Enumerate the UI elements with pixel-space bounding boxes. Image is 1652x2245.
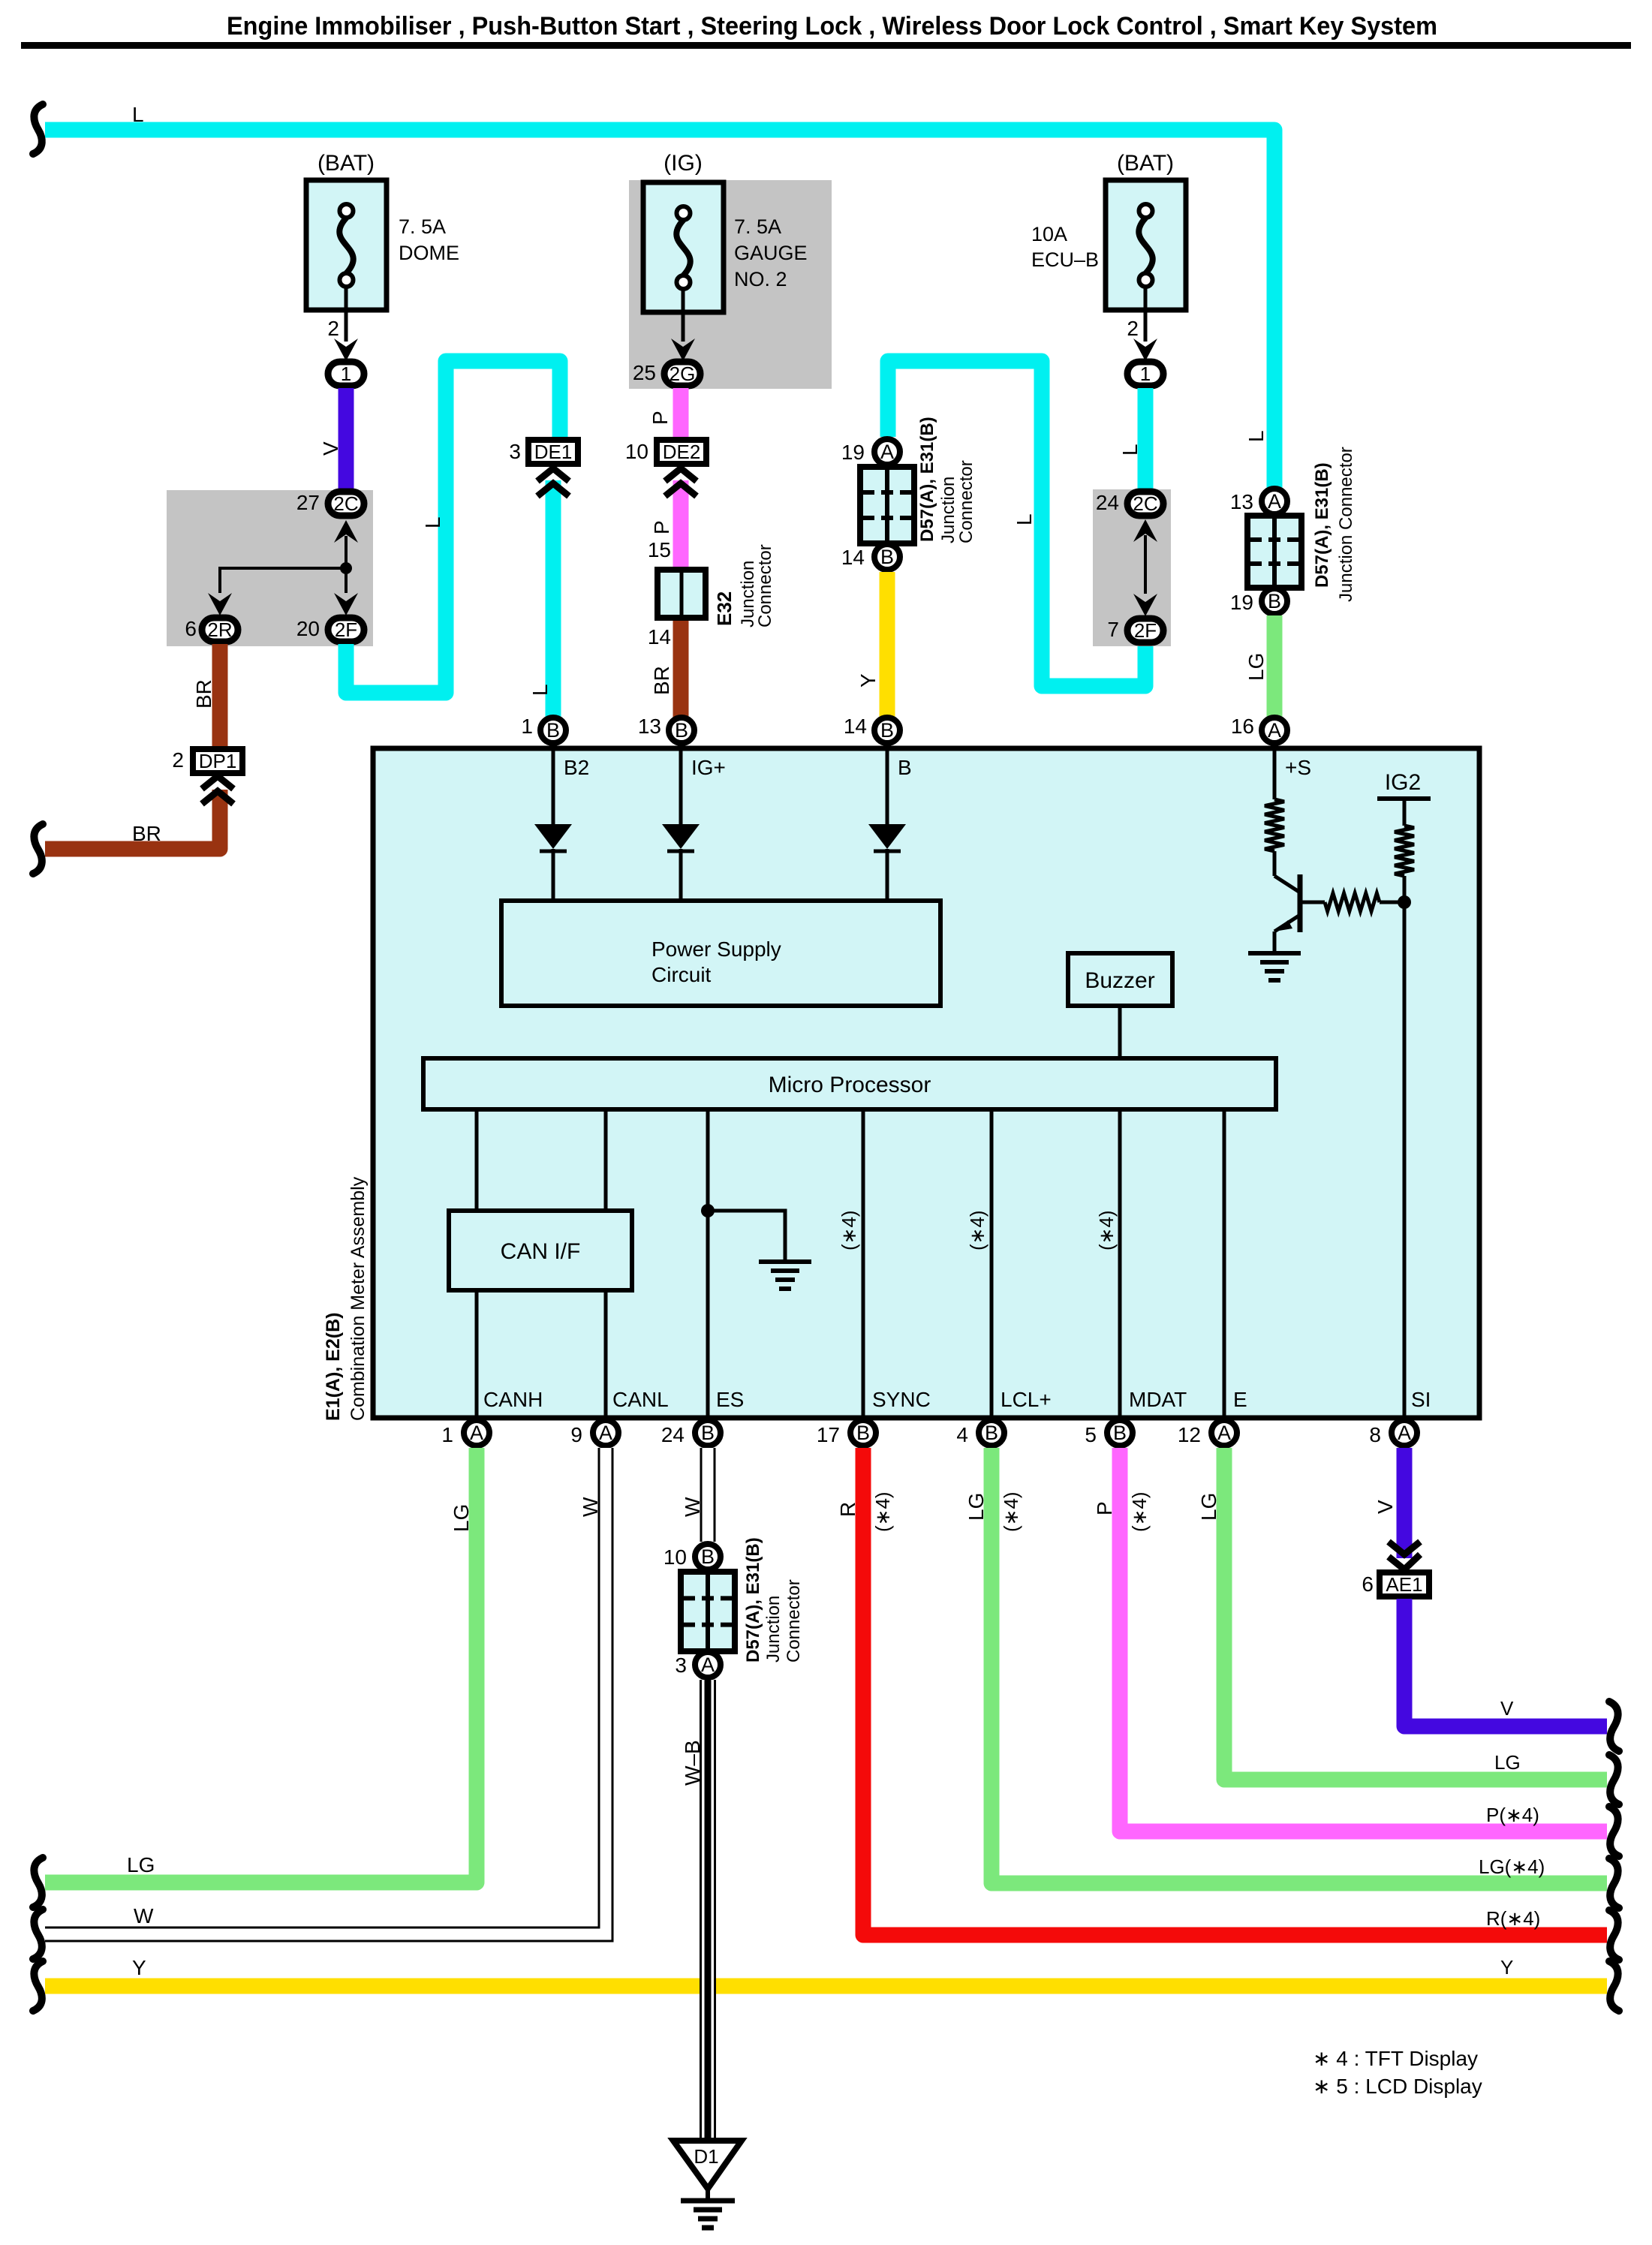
svg-text:LG(∗4): LG(∗4) — [1479, 1855, 1545, 1878]
label W upper of W-B — [681, 1497, 704, 1517]
wire CANH upper — [475, 1109, 479, 1211]
svg-text:12: 12 — [1178, 1423, 1201, 1446]
label R(*4) right — [1486, 1907, 1540, 1930]
svg-text:B: B — [880, 546, 894, 568]
wire P pin5B to right edge — [1120, 1448, 1607, 1831]
wire LCL+ — [990, 1109, 994, 1418]
svg-text:2C: 2C — [333, 492, 358, 515]
label LG below pin 1A — [450, 1504, 473, 1532]
svg-text:2: 2 — [327, 317, 339, 340]
pin 17 B bottom — [817, 1420, 876, 1446]
svg-text:2F: 2F — [335, 618, 357, 641]
node 6 2R — [185, 617, 238, 642]
svg-text:Junction: Junction — [763, 1596, 784, 1663]
resistor IG2 — [1395, 826, 1414, 876]
label D57(A) E31(B) second — [1312, 447, 1356, 602]
harness block GAUGE (gray) — [629, 180, 832, 389]
connector DP1 — [172, 748, 242, 773]
svg-text:1: 1 — [441, 1423, 453, 1446]
wire P upper — [673, 388, 689, 438]
connector oval 1 (ECU-B) — [1127, 362, 1163, 386]
svg-text:IG+: IG+ — [691, 756, 726, 779]
svg-text:B: B — [1113, 1422, 1127, 1444]
connector DE1 — [509, 440, 578, 464]
svg-text:14: 14 — [648, 625, 671, 649]
svg-text:A: A — [599, 1422, 612, 1444]
svg-text:IG2: IG2 — [1385, 770, 1421, 795]
label BR horizontal — [132, 822, 161, 845]
wire W-B pin24B upper — [700, 1448, 716, 1542]
wire V AE1 to right edge — [1404, 1599, 1607, 1726]
svg-text:(∗4): (∗4) — [966, 1210, 988, 1250]
svg-text:AE1: AE1 — [1386, 1573, 1422, 1596]
svg-text:1: 1 — [341, 363, 351, 385]
label (BAT) ECU-B — [1117, 151, 1174, 176]
junction connector D57(A) E31(B) third — [664, 1544, 721, 1569]
fuse 7.5A DOME — [306, 180, 387, 310]
wire BR to left edge — [45, 790, 220, 849]
wire continuation curl LG4 right — [1609, 1858, 1619, 1908]
svg-text:B: B — [1268, 590, 1281, 612]
svg-text:R(∗4): R(∗4) — [1486, 1907, 1540, 1930]
pin 13 B top — [638, 715, 694, 743]
svg-text:BR: BR — [650, 666, 673, 695]
svg-text:+S: +S — [1285, 756, 1311, 779]
label SYNC — [872, 1388, 931, 1411]
label D57(A) E31(B) first — [917, 417, 976, 543]
label LG below pin 12A — [1197, 1493, 1220, 1521]
wire LG 19B to pin 16A — [1267, 615, 1283, 719]
svg-text:D57(A), E31(B): D57(A), E31(B) — [1312, 462, 1332, 588]
pin 1 A bottom — [441, 1420, 489, 1446]
label LG below pin 4B — [964, 1493, 988, 1521]
wire LG pin12A to right edge — [1224, 1448, 1607, 1780]
block CAN I/F — [449, 1211, 632, 1290]
svg-text:7. 5A: 7. 5A — [734, 215, 781, 238]
svg-text:20: 20 — [296, 617, 320, 640]
svg-text:24: 24 — [661, 1423, 685, 1446]
svg-text:B: B — [546, 719, 560, 742]
label LG left — [127, 1853, 155, 1876]
label W below pin 9A — [579, 1497, 602, 1517]
svg-text:B: B — [856, 1422, 870, 1444]
label 15 E32 pin — [648, 538, 671, 561]
svg-text:ES: ES — [716, 1388, 744, 1411]
svg-text:L: L — [1118, 444, 1142, 456]
svg-text:DP1: DP1 — [199, 750, 237, 772]
label V below pin 8A — [1374, 1500, 1397, 1514]
pin 14 B top — [844, 715, 900, 743]
label 2 DOME pin — [327, 317, 339, 340]
chevron DE2 — [665, 468, 697, 496]
label Y right — [1500, 1956, 1513, 1979]
node 7 2F — [1107, 618, 1163, 643]
svg-text:A: A — [880, 441, 894, 463]
svg-text:DE1: DE1 — [534, 441, 573, 463]
wire BR 2R to DP1 — [212, 644, 228, 750]
wire continuation curl Y right — [1609, 1961, 1619, 2011]
label SI — [1411, 1388, 1431, 1411]
svg-text:Junction: Junction — [938, 477, 958, 543]
label W left — [134, 1904, 154, 1928]
wire Y full width — [45, 1979, 1607, 1994]
wire IG2 to SI pin — [1403, 876, 1407, 1418]
svg-text:27: 27 — [296, 491, 320, 514]
wire fuse ECU-B pin 2 — [1133, 287, 1157, 361]
svg-text:V: V — [1500, 1697, 1514, 1720]
wire MDAT — [1118, 1109, 1122, 1418]
pin 4 B bottom — [956, 1420, 1004, 1446]
svg-text:15: 15 — [648, 538, 671, 561]
svg-text:D57(A), E31(B): D57(A), E31(B) — [743, 1537, 763, 1663]
svg-text:W: W — [681, 1497, 704, 1517]
svg-text:3: 3 — [509, 440, 521, 463]
wire V pin8A upper — [1397, 1448, 1413, 1558]
node 27 2C — [296, 491, 364, 516]
svg-text:A: A — [1268, 719, 1281, 742]
svg-text:DOME: DOME — [399, 242, 459, 264]
wire L 2F to DE1 — [346, 361, 560, 693]
wire CANL lower — [604, 1290, 608, 1418]
fuse 10A ECU-B — [1106, 180, 1186, 310]
ECU Combination Meter Assembly — [373, 748, 1479, 1418]
svg-text:9: 9 — [570, 1423, 582, 1446]
wire continuation curl W left — [33, 1909, 43, 1959]
svg-text:10: 10 — [625, 440, 648, 463]
svg-text:8: 8 — [1369, 1423, 1381, 1446]
svg-text:Combination Meter Assembly: Combination Meter Assembly — [348, 1176, 369, 1421]
label E32 Junction Connector — [713, 544, 775, 627]
junction connector D57(A) E31(B) second — [1230, 489, 1287, 514]
svg-text:LG: LG — [127, 1853, 155, 1876]
connector DE2 — [625, 440, 706, 464]
junction dot — [340, 562, 352, 574]
svg-text:(∗4): (∗4) — [1000, 1491, 1022, 1532]
svg-text:10: 10 — [664, 1545, 687, 1569]
pin 8 A bottom — [1369, 1420, 1417, 1446]
svg-text:SYNC: SYNC — [872, 1388, 931, 1411]
svg-text:24: 24 — [1096, 491, 1119, 514]
resistor base — [1300, 893, 1404, 911]
diode B2 — [534, 748, 572, 901]
svg-text:LG: LG — [1244, 653, 1268, 681]
label ES — [716, 1388, 744, 1411]
svg-text:Micro Processor: Micro Processor — [769, 1073, 931, 1097]
svg-text:6: 6 — [185, 617, 197, 640]
svg-text:E1(A), E2(B): E1(A), E2(B) — [323, 1313, 344, 1421]
block Micro Processor — [423, 1058, 1276, 1109]
svg-text:2G: 2G — [670, 363, 696, 385]
svg-text:CAN I/F: CAN I/F — [501, 1239, 581, 1264]
connector oval 25 2G — [633, 361, 700, 386]
wire LG pin4B to right edge — [992, 1448, 1607, 1883]
svg-text:19: 19 — [1230, 591, 1253, 614]
wire R pin17B to right edge — [863, 1448, 1607, 1935]
transistor Q1 — [1274, 851, 1300, 953]
svg-text:Junction Connector: Junction Connector — [1336, 447, 1356, 602]
svg-text:7. 5A: 7. 5A — [399, 215, 446, 238]
svg-text:2: 2 — [1127, 317, 1139, 340]
wire junction to 2R — [208, 568, 346, 615]
svg-text:(IG): (IG) — [664, 151, 703, 176]
label E1(A) E2(B) Combination Meter Assembly — [323, 1176, 369, 1421]
wire continuation curl P right — [1609, 1807, 1619, 1856]
label CANH — [483, 1388, 543, 1411]
pin 12 A bottom — [1178, 1420, 1237, 1446]
wire continuation curl Y left — [33, 1961, 43, 2011]
label W-B — [681, 1740, 704, 1786]
label LG right — [1494, 1751, 1521, 1774]
wire E — [1223, 1109, 1226, 1418]
wire fuse GAUGE pin 25 — [671, 290, 695, 361]
wire L (cyan) battery feed — [45, 130, 1274, 488]
block Power Supply Circuit — [501, 901, 940, 1006]
pin 19 B of D57 second — [1230, 588, 1287, 614]
label 7.5A DOME — [399, 215, 459, 264]
connector AE1 — [1362, 1572, 1429, 1596]
wire CANL upper — [604, 1109, 608, 1211]
label LCL+ — [1001, 1388, 1052, 1411]
svg-text:LG: LG — [1494, 1751, 1521, 1774]
svg-text:7: 7 — [1107, 618, 1119, 641]
label MDAT — [1129, 1388, 1187, 1411]
pin 14 B of D57 — [841, 544, 900, 570]
label CANL — [612, 1388, 669, 1411]
label BR vertical — [192, 679, 215, 709]
wire L DE1 to pin 1B — [546, 480, 561, 719]
svg-text:Buzzer: Buzzer — [1085, 968, 1154, 993]
pin 3 A of D57 third — [675, 1652, 721, 1678]
diode B — [868, 748, 906, 901]
node 20 2F — [296, 617, 364, 642]
svg-text:Connector: Connector — [784, 1579, 804, 1663]
wire 2C to 2F right — [1133, 519, 1157, 616]
svg-text:6: 6 — [1362, 1572, 1374, 1596]
svg-text:B: B — [701, 1422, 715, 1444]
svg-text:(BAT): (BAT) — [317, 151, 375, 176]
svg-text:Power Supply: Power Supply — [651, 937, 781, 961]
wire continuation curl BR — [33, 824, 43, 874]
label E — [1233, 1388, 1247, 1411]
svg-text:LCL+: LCL+ — [1001, 1388, 1052, 1411]
label Y wire — [856, 673, 880, 688]
node ES junction dot — [701, 1204, 715, 1217]
svg-text:(∗4): (∗4) — [1128, 1491, 1151, 1532]
svg-text:10A: 10A — [1031, 223, 1067, 245]
pin 9 A bottom — [570, 1420, 618, 1446]
svg-text:Connector: Connector — [956, 460, 976, 543]
svg-text:(BAT): (BAT) — [1117, 151, 1174, 176]
svg-text:Y: Y — [856, 673, 880, 688]
label 2 ECU-B pin — [1127, 317, 1139, 340]
svg-text:B2: B2 — [564, 756, 589, 779]
svg-text:2F: 2F — [1134, 619, 1157, 642]
svg-text:(∗4): (∗4) — [838, 1210, 860, 1250]
label L above pin 1B — [528, 684, 552, 696]
wire W-B to D1 — [700, 1680, 716, 2138]
svg-text:14: 14 — [841, 546, 865, 569]
wire ES ground branch — [708, 1211, 785, 1262]
label (*4) SYNC — [838, 1210, 860, 1250]
svg-text:D57(A), E31(B): D57(A), E31(B) — [917, 417, 937, 542]
svg-text:∗ 4 : TFT Display: ∗ 4 : TFT Display — [1313, 2047, 1478, 2070]
wire 2C to junction — [334, 520, 358, 568]
svg-text:MDAT: MDAT — [1129, 1388, 1187, 1411]
svg-text:P: P — [650, 520, 673, 534]
svg-text:Circuit: Circuit — [651, 963, 712, 986]
svg-text:1: 1 — [521, 715, 533, 738]
svg-text:16: 16 — [1231, 715, 1254, 738]
label V right — [1500, 1697, 1514, 1720]
svg-text:ECU–B: ECU–B — [1031, 248, 1099, 271]
label R below pin 17B — [836, 1502, 859, 1517]
svg-text:P: P — [648, 411, 672, 425]
ground transistor emitter — [1248, 953, 1301, 980]
label IG+ — [691, 756, 726, 779]
svg-text:GAUGE: GAUGE — [734, 242, 808, 264]
wire W pin9A to left edge — [45, 1448, 606, 1934]
wire L 19A to 2F right — [888, 361, 1145, 686]
svg-text:Y: Y — [132, 1956, 146, 1979]
label LG wire right — [1244, 653, 1268, 681]
harness block right (gray) — [1093, 489, 1171, 646]
svg-text:2R: 2R — [207, 618, 232, 641]
svg-text:L: L — [1244, 430, 1268, 442]
svg-text:P(∗4): P(∗4) — [1486, 1804, 1539, 1826]
svg-text:(∗4): (∗4) — [1095, 1210, 1118, 1250]
svg-text:V: V — [319, 441, 342, 456]
svg-text:13: 13 — [1230, 490, 1253, 513]
label (*4) below pin 17B — [871, 1491, 894, 1532]
harness block left (gray) — [167, 490, 373, 646]
label BR E32 — [650, 666, 673, 695]
label D57(A) E31(B) third — [743, 1537, 804, 1663]
chevron DP1 — [202, 776, 233, 804]
svg-text:V: V — [1374, 1500, 1397, 1514]
svg-text:P: P — [1093, 1501, 1116, 1515]
wire ES — [706, 1109, 710, 1418]
fuse 7.5A GAUGE NO.2 — [643, 182, 724, 312]
note TFT LCD display — [1313, 2047, 1482, 2098]
wire Y 14B to pin 14B — [880, 572, 895, 719]
svg-text:5: 5 — [1085, 1423, 1097, 1446]
wire continuation curl R right — [1609, 1910, 1619, 1960]
label L mid vertical — [421, 516, 444, 528]
svg-text:BR: BR — [132, 822, 161, 845]
svg-text:E32: E32 — [713, 591, 736, 626]
svg-text:NO. 2: NO. 2 — [734, 268, 787, 290]
svg-text:(∗4): (∗4) — [871, 1491, 894, 1532]
label B pin14 — [898, 756, 912, 779]
wire continuation curl LG left — [33, 1858, 43, 1907]
node 24 2C — [1096, 491, 1163, 516]
svg-text:25: 25 — [633, 361, 656, 384]
svg-text:4: 4 — [956, 1423, 968, 1446]
svg-text:SI: SI — [1411, 1388, 1431, 1411]
label +S — [1285, 756, 1311, 779]
pin 16 A top — [1231, 715, 1287, 743]
svg-text:CANL: CANL — [612, 1388, 669, 1411]
svg-text:B: B — [701, 1545, 715, 1568]
svg-text:W–B: W–B — [681, 1740, 704, 1786]
connector oval 1 (DOME) — [328, 362, 364, 386]
label (IG) — [664, 151, 703, 176]
svg-text:W: W — [579, 1497, 602, 1517]
block Buzzer — [1068, 953, 1172, 1006]
label V — [319, 441, 342, 456]
pin 24 B bottom — [661, 1420, 721, 1446]
svg-text:2: 2 — [172, 748, 184, 772]
label P(*4) right — [1486, 1804, 1539, 1826]
label L right vertical — [1244, 430, 1268, 442]
chevron DE1 — [537, 468, 569, 496]
label (*4) below pin 4B — [1000, 1491, 1022, 1532]
wire BR E32 to pin 13B — [673, 621, 689, 719]
wire Buzzer to Micro Processor — [1118, 1006, 1122, 1058]
ground ES — [759, 1262, 811, 1289]
wire continuation curl V right — [1609, 1702, 1619, 1751]
svg-text:13: 13 — [638, 715, 661, 738]
label L u-loop — [1013, 513, 1036, 525]
junction connector D57(A) E31(B) first — [841, 439, 900, 465]
svg-text:A: A — [1217, 1422, 1231, 1444]
svg-text:W: W — [134, 1904, 154, 1928]
label P upper — [648, 411, 672, 425]
label (*4) below pin 5B — [1128, 1491, 1151, 1532]
resistor +S — [1265, 799, 1284, 851]
svg-text:A: A — [1268, 490, 1281, 513]
svg-text:L: L — [528, 684, 552, 696]
wire continuation curl top-left — [33, 104, 43, 154]
label 7.5A GAUGE NO.2 — [734, 215, 808, 290]
title — [227, 12, 1437, 41]
svg-text:DE2: DE2 — [663, 441, 701, 463]
wire fuse DOME pin 2 — [334, 287, 358, 361]
pin 5 B bottom — [1085, 1420, 1133, 1446]
svg-text:L: L — [132, 103, 144, 126]
chevron AE1 — [1389, 1542, 1420, 1569]
svg-text:Engine Immobiliser , Push-Butt: Engine Immobiliser , Push-Button Start ,… — [227, 12, 1437, 41]
wire SYNC — [862, 1109, 865, 1418]
label L ECU-B — [1118, 444, 1142, 456]
svg-text:17: 17 — [817, 1423, 840, 1446]
svg-text:19: 19 — [841, 441, 865, 464]
svg-text:B: B — [898, 756, 912, 779]
svg-text:R: R — [836, 1502, 859, 1517]
svg-text:A: A — [1398, 1422, 1411, 1444]
svg-text:1: 1 — [1140, 363, 1151, 385]
diode IG+ — [662, 748, 700, 901]
wire P lower — [673, 480, 689, 567]
svg-text:A: A — [701, 1654, 715, 1676]
svg-text:A: A — [470, 1422, 483, 1444]
svg-text:B: B — [985, 1422, 998, 1444]
svg-text:∗ 5 : LCD Display: ∗ 5 : LCD Display — [1313, 2075, 1482, 2098]
svg-text:B: B — [675, 719, 688, 742]
svg-text:LG: LG — [450, 1504, 473, 1532]
label Y left — [132, 1956, 146, 1979]
label P lower — [650, 520, 673, 534]
svg-text:CANH: CANH — [483, 1388, 543, 1411]
svg-text:2C: 2C — [1133, 492, 1157, 515]
ground D1 — [673, 2141, 742, 2228]
label LG(*4) right — [1479, 1855, 1545, 1878]
node IG2 junction dot — [1398, 895, 1411, 909]
svg-text:E: E — [1233, 1388, 1247, 1411]
wire junction to 2F — [334, 568, 358, 615]
net IG2 — [1377, 770, 1431, 826]
svg-text:3: 3 — [675, 1654, 687, 1677]
